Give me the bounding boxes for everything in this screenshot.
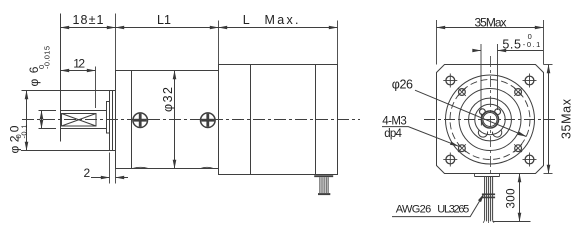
dimension φ6 [39, 111, 57, 129]
dimension 5.5 (shaft flat) [474, 44, 544, 110]
circle r30 [459, 89, 521, 151]
svg-text:dp4: dp4 [384, 128, 402, 140]
leader line for AWG26 UL3265 [392, 194, 484, 217]
gearbox front plate line [131, 71, 133, 169]
svg-text:4-M3: 4-M3 [382, 115, 407, 127]
boss bumps on gearbox bottom edge [133, 167, 214, 168]
shaft (φ6 output shaft, side view) [61, 14, 107, 142]
svg-text:35Max: 35Max [560, 98, 574, 139]
circle r22 [469, 98, 512, 141]
svg-text:35Max: 35Max [475, 16, 507, 30]
leader line for φ26 [415, 90, 526, 136]
label φ20 with tolerance [8, 125, 29, 154]
corner hole TR [523, 74, 537, 88]
dimension L1 [116, 21, 219, 65]
dimension 2 (disc thickness) [91, 153, 128, 184]
svg-text:18±1: 18±1 [73, 13, 104, 27]
svg-text:5.5: 5.5 [502, 37, 521, 51]
M3 hole TL [458, 88, 466, 96]
svg-text:L: L [243, 13, 250, 27]
gearbox body (side view) [116, 71, 219, 169]
motor rear end-cap line [315, 65, 317, 175]
svg-text:-0.1: -0.1 [20, 125, 29, 139]
dimension L Max. [219, 21, 338, 65]
corner hole BR [523, 153, 537, 167]
pilot circle (outer) [446, 75, 535, 164]
dimension φ32 [174, 71, 176, 169]
svg-text:φ32: φ32 [161, 87, 175, 112]
φ20 disc (2mm mounting pilot plate) [110, 91, 116, 151]
svg-text:UL3265: UL3265 [437, 203, 469, 215]
dimension 35Max (right) [544, 65, 553, 174]
dimension 12 [61, 67, 96, 109]
front view vertical centerline [490, 56, 492, 178]
corner hole TL [443, 74, 457, 88]
extension line (gearbox front face, up to dimension line) [115, 14, 117, 71]
label φ6 with tolerance [27, 46, 52, 87]
front boss (small pilot boss) [107, 102, 110, 134]
front view square body [437, 65, 544, 174]
screw S2 (gearbox right screw) [201, 113, 216, 128]
M3 hole BR [514, 144, 522, 152]
label 5.5 with tolerance [502, 32, 540, 52]
centerline (left view horizontal, dash-dot) [22, 119, 360, 121]
svg-text:AWG26: AWG26 [396, 203, 432, 215]
screw S1 (gearbox left screw) [133, 113, 148, 128]
M3 hole BL [458, 144, 466, 152]
corner hole BL [443, 153, 457, 167]
front view horizontal centerline [424, 119, 556, 121]
svg-text:-0.015: -0.015 [43, 46, 52, 69]
svg-text:300: 300 [506, 189, 518, 209]
M3 hole TR [514, 88, 522, 96]
svg-text:12: 12 [73, 57, 85, 71]
motor front end-cap line [250, 65, 252, 175]
dimension φ20 [21, 91, 113, 151]
dimension 35Max (top) [437, 20, 544, 65]
dimension 18±1 [61, 27, 116, 29]
φ26 bolt circle (dashed) [450, 80, 530, 160]
lead wires (front view) [475, 174, 500, 224]
e-clip ring on shaft [478, 109, 501, 137]
leader line for 4-M3 dp4 [382, 127, 459, 147]
svg-text:Max.: Max. [265, 13, 299, 27]
dimension 300 (wire length) [493, 174, 531, 222]
svg-text:-0.1: -0.1 [523, 40, 541, 49]
lead wires (side view) [314, 176, 333, 194]
svg-text:2: 2 [84, 166, 91, 180]
circle r16 [475, 104, 505, 134]
motor body (side view) [219, 65, 338, 175]
svg-text:L1: L1 [157, 13, 171, 27]
svg-text:φ26: φ26 [392, 77, 413, 91]
shaft flat section (12mm, cross-hatched box) [62, 114, 97, 127]
